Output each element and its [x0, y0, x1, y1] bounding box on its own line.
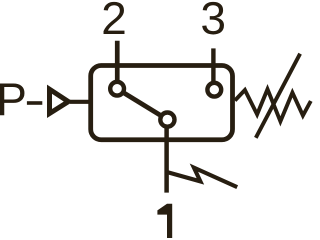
terminal circle wiper — [160, 113, 174, 127]
resistor zigzag — [235, 89, 311, 121]
terminal circle pin 3 — [207, 83, 221, 97]
pin label 3 — [202, 2, 224, 35]
lightning arrow at pin 1 — [167, 168, 237, 188]
label P (input P) — [0, 84, 24, 116]
pin label 2 — [104, 2, 125, 34]
wire pin 2 — [115, 41, 120, 88]
wire pin 3 — [211, 48, 215, 89]
pin label 1 — [157, 204, 172, 238]
terminal circle pin 2 — [110, 82, 124, 96]
buffer triangle — [50, 89, 69, 113]
hyphen after P — [27, 101, 42, 105]
switch arm wiper — [117, 89, 167, 120]
box (device body) — [91, 66, 233, 140]
adjustment diagonal through resistor — [256, 54, 300, 138]
wire pin 1 — [164, 127, 169, 193]
wire from triangle apex to box — [70, 100, 92, 104]
